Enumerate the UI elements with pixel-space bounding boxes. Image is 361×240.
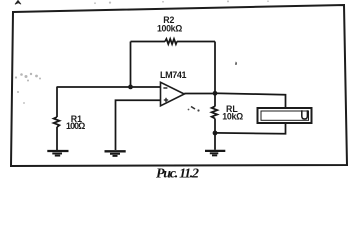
node output junction — [213, 91, 218, 96]
junction dot at minus input — [128, 85, 133, 90]
ground GND1 — [47, 151, 68, 156]
ground GND2 — [105, 151, 126, 156]
resistor R1 (vertical) — [54, 87, 60, 151]
svg-text:10kΩ: 10kΩ — [222, 112, 243, 122]
wire RL to ground — [214, 133, 216, 150]
svg-text:LM741: LM741 — [160, 70, 187, 80]
wire output — [184, 93, 215, 95]
svg-text:Рис. 11.2: Рис. 11.2 — [156, 167, 199, 182]
wire feedback right vertical — [214, 42, 216, 94]
stray smudge left — [15, 73, 41, 104]
svg-text:100Ω: 100Ω — [66, 121, 85, 131]
stray comma mark — [235, 62, 237, 66]
wire feedback left vertical — [130, 42, 132, 88]
border frame (decorative) — [11, 5, 347, 166]
stray marks near op-amp output — [188, 107, 200, 112]
resistor R2 (feedback, horizontal) — [131, 39, 216, 44]
wire voltmeter bottom — [215, 123, 286, 134]
resistor RL (vertical) — [212, 93, 218, 133]
op-amp U1 LM741 — [161, 82, 185, 106]
stray caret mark top-left — [15, 0, 21, 4]
faint specks top edge — [94, 0, 269, 4]
voltmeter U — [258, 108, 312, 123]
svg-text:100kΩ: 100kΩ — [157, 24, 182, 34]
wire plus input — [116, 100, 161, 150]
node RL bottom junction — [213, 131, 218, 136]
wire minus input horizontal — [57, 86, 161, 88]
wire voltmeter top — [215, 93, 286, 108]
ground GND3 — [205, 151, 225, 156]
